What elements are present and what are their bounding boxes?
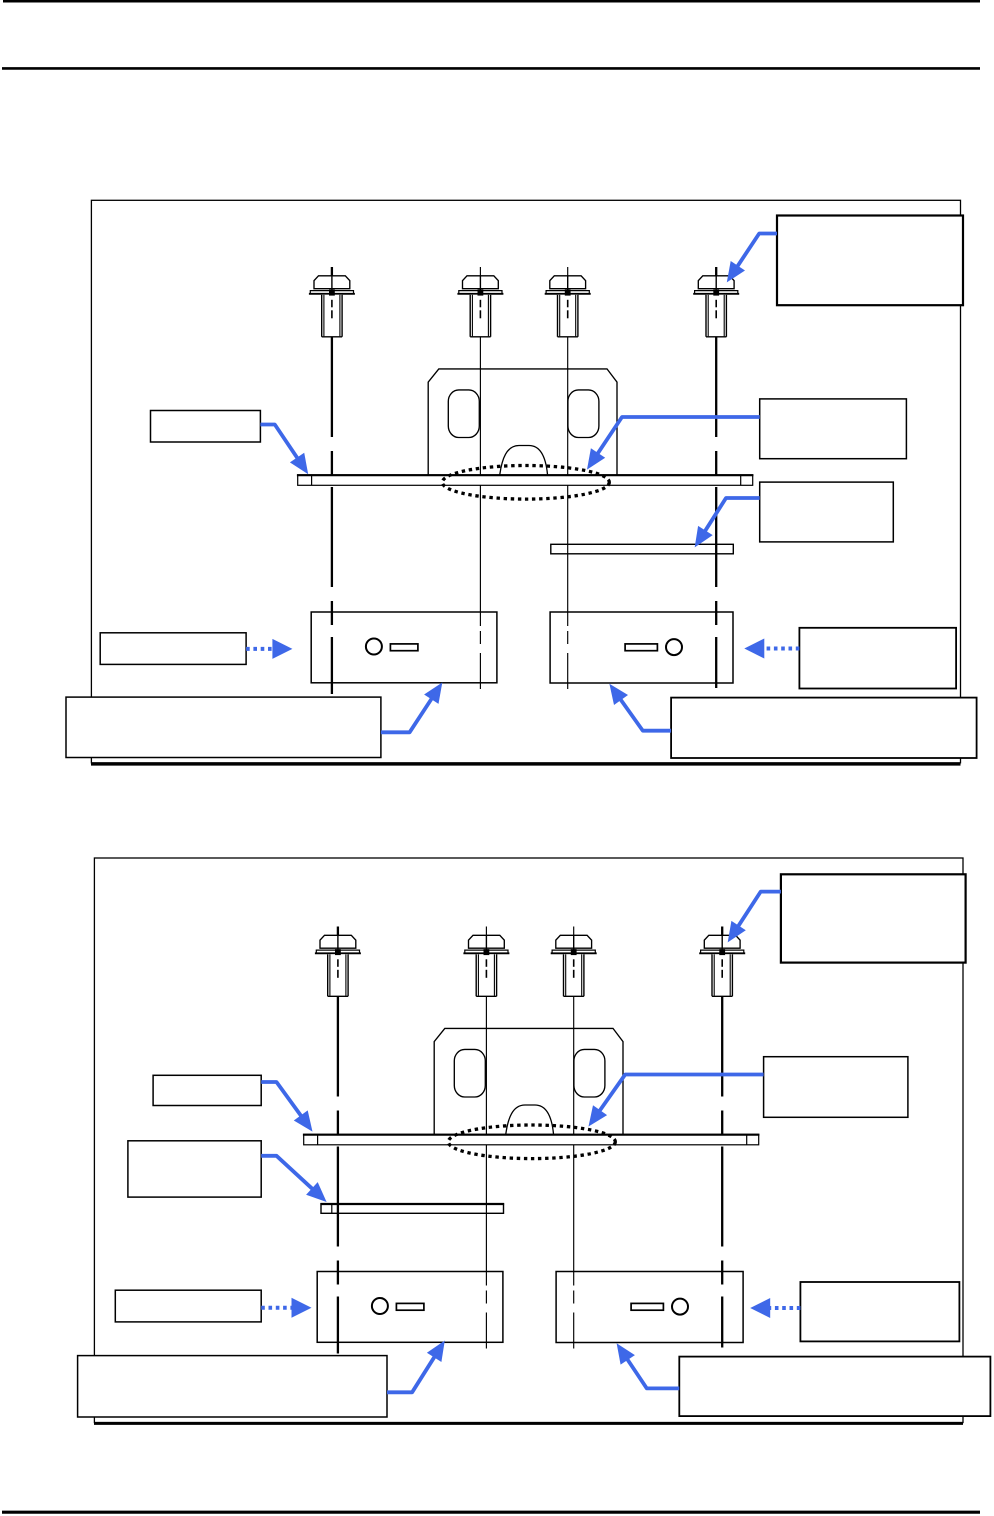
dotted arrow to left block — [246, 639, 292, 659]
arrow to bar left end — [260, 425, 308, 475]
dotted arrow to right block — [744, 639, 799, 659]
page footer rule — [2, 1511, 980, 1514]
callout box: top right (bolt) — [777, 216, 963, 306]
dotted arrow to left block — [261, 1298, 311, 1318]
page header rule top — [3, 0, 980, 3]
callout box: right (bracket) — [764, 1057, 908, 1118]
arrow to right block bottom — [617, 1343, 680, 1388]
callout box: mid right (right block) — [800, 1282, 959, 1341]
arrow to strip — [261, 1156, 326, 1202]
callout box: mid left (left block) — [100, 633, 246, 665]
callout box: left lower (strip) — [128, 1141, 261, 1197]
retaining strip — [320, 1204, 504, 1214]
callout box: bottom left — [66, 697, 381, 757]
arrow to bracket — [589, 1075, 764, 1127]
callout box: right lower (strip) — [760, 482, 894, 542]
flange bolt 3 — [551, 935, 597, 996]
callout box: mid left (left block) — [115, 1290, 261, 1322]
mounting bracket — [428, 369, 617, 475]
flange bolt 4 — [699, 935, 745, 996]
centerline bolt 2 — [485, 927, 487, 1349]
callout box: left upper (bar) — [153, 1075, 261, 1105]
arrow to bracket — [587, 417, 760, 470]
callout box: mid right (right block) — [799, 628, 956, 689]
callout box: left (bar) — [151, 411, 261, 443]
callout box: bottom right — [671, 698, 977, 758]
arrow to strip — [695, 498, 760, 547]
flange bolt 2 — [457, 276, 503, 337]
arrow to bolt 4 — [728, 892, 781, 943]
left lock block — [317, 1272, 503, 1343]
right lock block — [556, 1272, 743, 1343]
retaining strip — [551, 544, 734, 554]
callout box: bottom right — [679, 1357, 990, 1417]
left lock block — [311, 612, 497, 683]
flange bolt 1 — [315, 935, 361, 996]
centerline bolt 4 — [715, 267, 717, 688]
centerline bolt 4 — [721, 927, 723, 1348]
page header rule bottom — [2, 67, 980, 70]
flange bolt 1 — [309, 276, 355, 337]
arrow to bolt 4 — [727, 234, 777, 283]
centerline bolt 3 — [567, 267, 569, 689]
callout box: right (bracket) — [760, 399, 907, 459]
figure 1 frame — [91, 200, 961, 764]
dotted arrow to right block — [750, 1298, 800, 1318]
arrow to left block bottom — [381, 683, 442, 733]
centerline bolt 3 — [573, 927, 575, 1349]
mounting bracket — [434, 1028, 623, 1134]
callout box: top right (bolt) — [781, 874, 966, 962]
centerline bolt 2 — [479, 267, 481, 689]
arrow to right block bottom — [609, 684, 671, 731]
centerline bolt 1 — [337, 927, 339, 1354]
callout box: bottom left — [78, 1356, 387, 1417]
centerline bolt 1 — [331, 267, 333, 694]
right lock block — [550, 612, 733, 683]
mounting bar — [297, 475, 754, 485]
arrow to left block bottom — [387, 1341, 445, 1393]
arrow to bar left end — [261, 1082, 312, 1132]
mounting bar — [303, 1134, 760, 1144]
figure 2 frame — [94, 858, 963, 1424]
flange bolt 4 — [693, 276, 739, 337]
dotted emphasis ellipse — [448, 1125, 615, 1159]
dotted emphasis ellipse — [442, 466, 609, 500]
flange bolt 2 — [463, 935, 509, 996]
flange bolt 3 — [545, 276, 591, 337]
